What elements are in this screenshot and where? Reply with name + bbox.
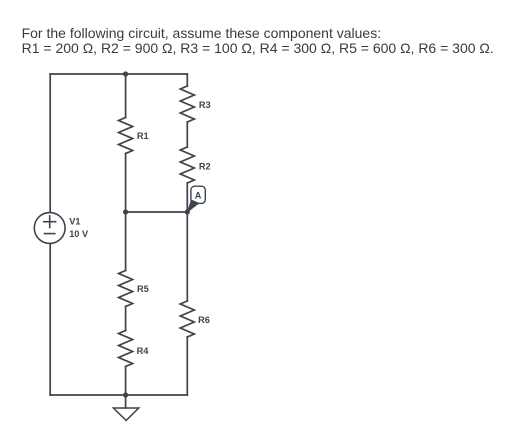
wire left vertical lower (V1 to bottom rail)	[49, 243, 51, 395]
wire middle vertical: top rail to R1	[125, 74, 127, 118]
svg-text:R1: R1	[137, 131, 149, 141]
wire bottom horizontal	[50, 394, 187, 396]
wire right vertical: R6 to bottom rail	[186, 337, 188, 395]
junction dot bottom rail / ground	[123, 392, 128, 397]
svg-text:10 V: 10 V	[69, 229, 89, 239]
junction dot node A / right branch	[185, 209, 190, 214]
svg-text:A: A	[195, 190, 202, 200]
wire middle vertical: R4 to bottom rail	[125, 367, 127, 396]
wire right vertical: top rail to R3	[186, 74, 188, 86]
wire top horizontal	[50, 73, 187, 75]
junction dot node A / middle branch	[123, 209, 128, 214]
node A pointer wedge	[187, 200, 198, 212]
V1 minus sign	[45, 233, 55, 235]
resistor R1	[119, 118, 133, 154]
wire left vertical upper (top rail to V1)	[49, 74, 51, 213]
voltage source V1 circle	[34, 213, 65, 244]
wire right vertical: R3 to R2	[186, 122, 188, 147]
resistor R5	[119, 271, 133, 307]
resistor R2	[180, 147, 194, 183]
wire right vertical: node A to R6	[186, 212, 188, 301]
svg-text:R2: R2	[199, 161, 211, 171]
node A bubble box	[191, 186, 205, 203]
svg-text:R5: R5	[137, 284, 149, 294]
problem statement text	[22, 26, 494, 55]
junction dot top rail / R1 branch	[123, 71, 128, 76]
wire middle vertical: R5 to R4	[125, 307, 127, 331]
svg-text:V1: V1	[69, 217, 80, 227]
wire middle vertical: R1 to R5	[125, 154, 127, 271]
wire right vertical: R2 to node A junction	[186, 183, 188, 212]
ground symbol	[113, 408, 138, 420]
ground stub wire	[125, 395, 127, 408]
svg-text:R4: R4	[137, 346, 150, 356]
resistor R4	[119, 331, 133, 367]
resistor R3	[180, 86, 194, 122]
svg-text:R3: R3	[199, 100, 211, 110]
resistor R6	[180, 301, 194, 337]
wire mid horizontal (node A net)	[126, 211, 188, 213]
svg-text:R6: R6	[198, 315, 210, 325]
V1 plus sign	[44, 216, 56, 228]
